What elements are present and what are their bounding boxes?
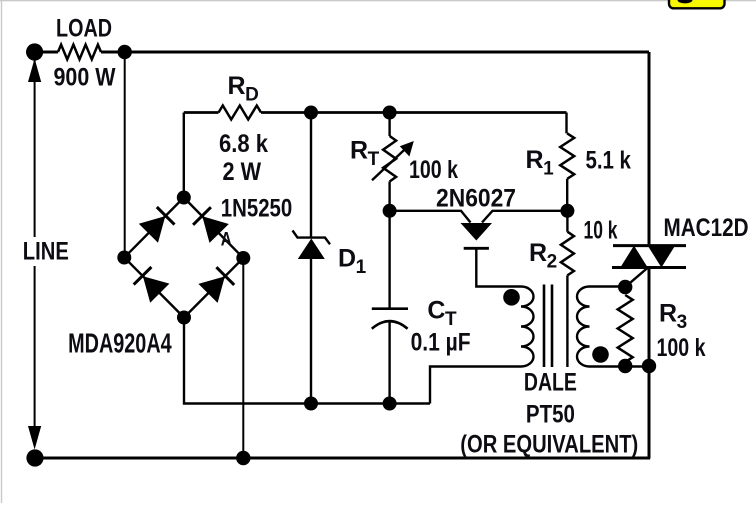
wire: top rail LINE->load->triac MT2	[35, 51, 649, 54]
node: AC2 on bottom rail	[236, 451, 250, 465]
wire: right rail top (to triac MT2)	[648, 52, 651, 244]
wire: PUT anode wire from RT node	[390, 211, 471, 223]
triac MAC12D	[612, 246, 686, 268]
transformer core	[544, 285, 552, 368]
svg-text:(OR EQUIVALENT): (OR EQUIVALENT)	[460, 431, 638, 459]
zener diode D1 1N5250A	[293, 231, 331, 260]
wire: R2 bottom lead	[566, 275, 568, 367]
transformer secondary winding	[577, 287, 590, 367]
resistor R3 100k	[618, 295, 633, 362]
resistor RD 6.8k 2W	[219, 106, 262, 120]
svg-text:10 k: 10 k	[584, 217, 618, 245]
wire: PUT gate to R1/R2 node	[482, 211, 568, 223]
svg-text:100 k: 100 k	[409, 156, 458, 184]
potentiometer RT 100k	[383, 136, 396, 182]
svg-text:2N6027: 2N6027	[436, 185, 516, 213]
bridge diode bottom-right (- to AC2)	[198, 267, 234, 303]
node: line top terminal	[26, 43, 43, 60]
bridge diode top-right (AC2 to +)	[193, 207, 229, 243]
node: R3 bottom	[618, 359, 632, 373]
secondary phasing dot	[592, 346, 609, 363]
node: bridge top (+)	[177, 191, 191, 205]
node: CT bottom junction	[383, 397, 397, 411]
bridge diode top-left (AC1 to +)	[139, 207, 175, 243]
primary phasing dot	[503, 289, 520, 306]
node: line bottom terminal	[26, 449, 43, 466]
wire: bridge - down and DC- rail	[184, 318, 430, 404]
node: bridge bottom (-)	[177, 311, 191, 325]
bridge diode bottom-left (- to AC1)	[134, 267, 170, 303]
wire: R1 top lead	[565, 113, 567, 134]
resistor LOAD 900W	[58, 45, 101, 60]
wire: D1 cathode lead	[310, 113, 312, 238]
node: D1 top junction	[304, 106, 318, 120]
node: R1/R2/gate junction	[560, 204, 574, 218]
svg-text:DALE: DALE	[524, 369, 577, 397]
wire: DC- step up to transformer primary return	[430, 367, 521, 404]
svg-text:100 k: 100 k	[657, 334, 706, 362]
svg-text:MDA920A4: MDA920A4	[68, 328, 172, 359]
node: load right junction	[118, 45, 132, 59]
PUT cathode bar	[464, 247, 489, 250]
svg-text:6.8 k: 6.8 k	[219, 130, 268, 158]
svg-text:0.1 µF: 0.1 µF	[411, 329, 471, 357]
wire: bridge AC2 down to bottom rail	[242, 258, 244, 458]
wire: RT top lead	[388, 113, 390, 137]
node: RT top junction	[383, 106, 397, 120]
capacitor CT 0.1uF	[372, 309, 408, 329]
PUT 2N6027 triangle	[461, 223, 493, 241]
viewer left border	[1, 0, 2, 503]
node: bridge left (AC1)	[117, 251, 131, 265]
svg-text:5.1 k: 5.1 k	[585, 147, 631, 175]
wire: secondary top to gate node	[590, 285, 626, 287]
node: bridge right (AC2)	[236, 251, 250, 265]
transformer primary winding (DALE PT50)	[521, 287, 534, 367]
svg-text:900 W: 900 W	[54, 64, 116, 92]
wire: PUT cathode to primary top	[476, 248, 521, 286]
svg-text:LOAD: LOAD	[56, 15, 112, 43]
wire: CT bottom lead	[388, 322, 390, 404]
wire: LINE vertical lower	[34, 266, 36, 430]
node: secondary return on MT1 rail	[642, 359, 656, 373]
svg-text:MAC12D: MAC12D	[664, 214, 749, 242]
resistor R1 5.1k	[560, 133, 574, 178]
RT wiper arrow	[372, 141, 414, 180]
svg-text:1N5250: 1N5250	[221, 195, 293, 223]
wire: junction down to bridge AC1	[124, 52, 126, 258]
svg-text:A: A	[221, 230, 232, 251]
node: secondary top / R3 top / gate	[618, 280, 632, 294]
wire: bottom rail	[35, 457, 650, 460]
wire: right rail bottom (triac MT1 to bottom rail)	[648, 269, 651, 458]
LINE terminal arrow down	[28, 426, 41, 450]
node: D1 bottom junction	[304, 397, 318, 411]
wire: RD rail	[184, 111, 567, 114]
wire: R1 bottom lead	[566, 179, 568, 211]
svg-text:LINE: LINE	[23, 238, 69, 266]
wire: triac gate diagonal	[625, 268, 648, 288]
wire: secondary bottom to MT1 rail	[590, 365, 650, 367]
wire: R2 top lead	[566, 211, 568, 232]
wire: D1 anode lead	[310, 259, 312, 404]
svg-text:PT50: PT50	[526, 401, 575, 429]
bridge rectifier MDA920A4 diamond	[124, 198, 243, 318]
LINE terminal arrow up	[28, 59, 41, 83]
svg-text:2 W: 2 W	[223, 158, 262, 186]
node: RT/CT/PUT anode junction	[383, 204, 397, 218]
yellow highlight button (cropped at top)	[669, 0, 725, 8]
wire: LINE vertical upper	[34, 58, 36, 237]
resistor R2 10k	[561, 232, 574, 276]
viewer top border	[0, 0, 756, 1]
wire: RT bottom to CT top	[388, 182, 390, 309]
wire: bridge + up to RD rail	[183, 113, 185, 198]
